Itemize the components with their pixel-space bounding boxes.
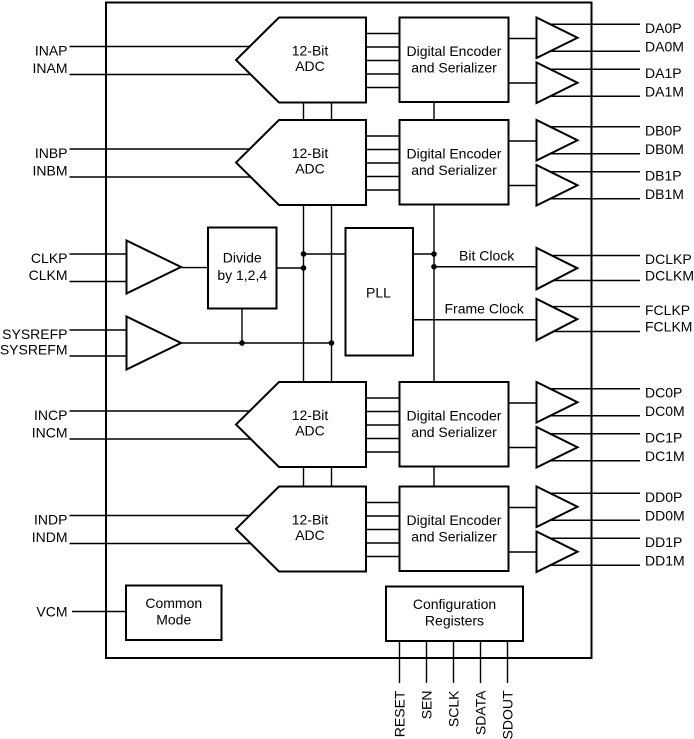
svg-text:DC1M: DC1M	[645, 448, 685, 464]
svg-text:Common: Common	[145, 595, 202, 611]
svg-text:DC0M: DC0M	[645, 403, 685, 419]
svg-text:ADC: ADC	[295, 527, 325, 543]
svg-text:INCP: INCP	[34, 407, 67, 423]
svg-text:Digital Encoder: Digital Encoder	[407, 408, 502, 424]
svg-text:FCLKM: FCLKM	[645, 319, 692, 335]
svg-text:INAM: INAM	[33, 60, 68, 76]
svg-text:and Serializer: and Serializer	[411, 60, 497, 76]
svg-text:ADC: ADC	[295, 58, 325, 74]
svg-text:SEN: SEN	[419, 691, 435, 720]
svg-text:CLKM: CLKM	[29, 267, 68, 283]
svg-text:DD0P: DD0P	[645, 489, 682, 505]
svg-text:DB1P: DB1P	[645, 167, 682, 183]
svg-text:DA0M: DA0M	[645, 38, 684, 54]
svg-text:Bit Clock: Bit Clock	[459, 248, 515, 264]
svg-text:INBM: INBM	[33, 163, 68, 179]
svg-text:Frame Clock: Frame Clock	[445, 301, 525, 317]
svg-text:DCLKP: DCLKP	[645, 251, 692, 267]
svg-text:INDM: INDM	[32, 529, 68, 545]
svg-text:DD1P: DD1P	[645, 534, 682, 550]
svg-text:DC1P: DC1P	[645, 429, 682, 445]
svg-text:SCLK: SCLK	[446, 690, 462, 727]
svg-text:RESET: RESET	[392, 690, 408, 737]
svg-text:DD0M: DD0M	[645, 507, 685, 523]
svg-text:FCLKP: FCLKP	[645, 302, 690, 318]
svg-text:DC0P: DC0P	[645, 384, 682, 400]
svg-text:DA0P: DA0P	[645, 20, 682, 36]
svg-text:INAP: INAP	[35, 43, 68, 59]
svg-text:ADC: ADC	[295, 161, 325, 177]
svg-text:INBP: INBP	[35, 145, 68, 161]
svg-text:12-Bit: 12-Bit	[292, 407, 329, 423]
svg-text:12-Bit: 12-Bit	[292, 512, 329, 528]
svg-text:DA1P: DA1P	[645, 65, 682, 81]
svg-text:and Serializer: and Serializer	[411, 162, 497, 178]
svg-text:Divide: Divide	[223, 250, 262, 266]
svg-text:CLKP: CLKP	[31, 250, 68, 266]
svg-text:INCM: INCM	[32, 425, 68, 441]
svg-text:SYSREFM: SYSREFM	[0, 342, 68, 358]
svg-text:INDP: INDP	[34, 512, 67, 528]
svg-text:Digital Encoder: Digital Encoder	[407, 512, 502, 528]
svg-text:SYSREFP: SYSREFP	[2, 326, 67, 342]
svg-text:and Serializer: and Serializer	[411, 424, 497, 440]
svg-text:DB0M: DB0M	[645, 141, 684, 157]
svg-text:Registers: Registers	[425, 613, 484, 629]
svg-text:DB1M: DB1M	[645, 186, 684, 202]
svg-text:12-Bit: 12-Bit	[292, 43, 329, 59]
svg-text:SDOUT: SDOUT	[500, 690, 516, 739]
svg-text:DA1M: DA1M	[645, 83, 684, 99]
svg-text:DD1M: DD1M	[645, 552, 685, 568]
svg-text:Mode: Mode	[156, 612, 191, 628]
svg-text:Configuration: Configuration	[413, 596, 496, 612]
svg-text:Digital Encoder: Digital Encoder	[407, 43, 502, 59]
svg-text:12-Bit: 12-Bit	[292, 145, 329, 161]
svg-text:DCLKM: DCLKM	[645, 268, 694, 284]
svg-text:SDATA: SDATA	[473, 690, 489, 735]
svg-text:by 1,2,4: by 1,2,4	[217, 267, 267, 283]
svg-text:DB0P: DB0P	[645, 122, 682, 138]
svg-text:ADC: ADC	[295, 423, 325, 439]
svg-text:Digital Encoder: Digital Encoder	[407, 146, 502, 162]
svg-text:VCM: VCM	[36, 604, 67, 620]
svg-text:and Serializer: and Serializer	[411, 529, 497, 545]
svg-text:PLL: PLL	[366, 285, 391, 301]
